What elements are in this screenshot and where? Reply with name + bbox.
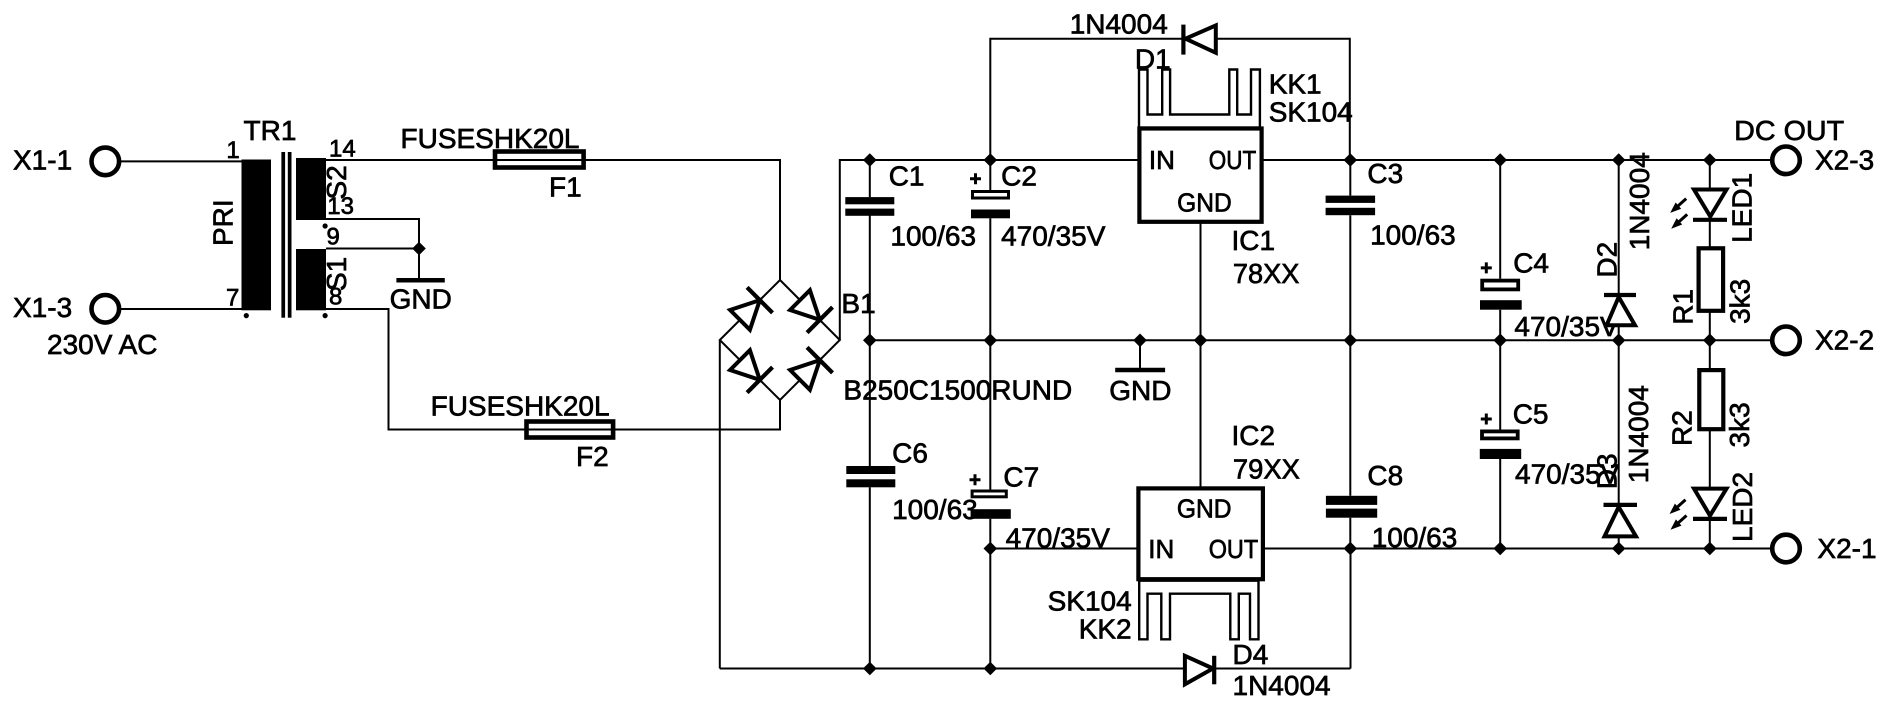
wire bottom rail riser to IC2 OUT <box>1350 549 1352 669</box>
svg-text:KK1: KK1 <box>1269 68 1322 99</box>
svg-text:C4: C4 <box>1513 247 1549 278</box>
diode D3 1N4004 <box>1592 385 1655 536</box>
svg-text:IC2: IC2 <box>1232 420 1276 451</box>
svg-text:D2: D2 <box>1592 242 1623 278</box>
svg-text:F1: F1 <box>549 172 582 203</box>
capacitor C3 <box>1326 158 1456 250</box>
terminal X2-3 <box>1772 144 1874 175</box>
svg-text:SK104: SK104 <box>1269 97 1353 128</box>
heatsink KK2 SK104 <box>1048 581 1259 645</box>
terminal X2-2 <box>1772 324 1874 355</box>
svg-text:3k3: 3k3 <box>1724 402 1755 447</box>
resistor R2 3k3 <box>1666 370 1755 447</box>
svg-text:C7: C7 <box>1003 461 1039 492</box>
svg-text:GND: GND <box>390 284 452 315</box>
bridge rectifier B1 <box>720 280 1072 405</box>
wire IC2 OUT line <box>1263 548 1770 550</box>
svg-text:X2-3: X2-3 <box>1815 144 1874 175</box>
LED1 <box>1670 173 1757 243</box>
svg-text:C5: C5 <box>1513 398 1549 429</box>
wire D2/D3 column <box>1618 160 1620 549</box>
wire C4/C5 column <box>1499 160 1501 549</box>
svg-text:GND: GND <box>1109 375 1171 406</box>
wire C1/C6 column <box>869 160 871 669</box>
capacitor C2 <box>970 161 1106 252</box>
svg-text:100/63: 100/63 <box>1372 522 1458 553</box>
svg-text:C6: C6 <box>892 438 928 469</box>
svg-text:X1-1: X1-1 <box>13 145 72 176</box>
svg-text:1: 1 <box>226 137 239 164</box>
svg-text:R2: R2 <box>1666 410 1697 446</box>
LED2 <box>1670 472 1758 542</box>
terminal X2-1 <box>1772 533 1876 564</box>
svg-text:14: 14 <box>329 136 356 163</box>
wire bridge plus riser <box>840 160 1140 340</box>
TR1 phase dot S2 <box>323 223 328 228</box>
ground symbol GND (mid rail) <box>1109 340 1171 406</box>
TR1 core <box>281 152 285 318</box>
svg-text:1N4004: 1N4004 <box>1624 152 1655 250</box>
svg-text:7: 7 <box>226 284 239 311</box>
svg-text:PRI: PRI <box>208 199 239 246</box>
wire TR1 pin 8 to bridge via F2 <box>326 309 780 430</box>
fuse F1 <box>401 123 584 203</box>
TR1 secondary winding S1 <box>296 249 326 310</box>
svg-text:OUT: OUT <box>1209 534 1259 564</box>
capacitor C1 <box>845 161 976 252</box>
capacitor C7 <box>970 461 1111 553</box>
junction dots bottom rail <box>863 662 997 676</box>
svg-text:D3: D3 <box>1592 453 1623 489</box>
svg-text:100/63: 100/63 <box>892 494 978 525</box>
diode D1 1N4004 <box>1070 9 1216 75</box>
regulator IC1 78XX <box>1139 129 1299 290</box>
svg-text:3k3: 3k3 <box>1724 279 1755 324</box>
capacitor C6 <box>846 438 977 526</box>
svg-text:OUT: OUT <box>1209 145 1257 175</box>
wire TR1 pin 14 to bridge via F1 <box>326 160 780 280</box>
wire IC2 IN line <box>990 548 1138 550</box>
svg-text:100/63: 100/63 <box>1370 220 1456 251</box>
svg-text:FUSESHK20L: FUSESHK20L <box>401 123 580 154</box>
junction dots lower OUT rail <box>984 542 1717 556</box>
diode D4 1N4004 <box>1185 639 1331 701</box>
wire C3/C8 column <box>1349 160 1351 549</box>
node center-tap junction <box>412 242 426 256</box>
wire TR1 pin 13 tap <box>326 219 419 249</box>
heatsink KK1 SK104 <box>1139 68 1353 127</box>
svg-text:LED1: LED1 <box>1726 173 1757 243</box>
TR1 primary winding <box>242 160 272 311</box>
junction dots mid rail <box>863 334 1717 348</box>
svg-text:GND: GND <box>1177 187 1232 217</box>
svg-text:GND: GND <box>1177 494 1232 524</box>
svg-text:B250C1500RUND: B250C1500RUND <box>843 374 1072 405</box>
diode D2 1N4004 <box>1592 152 1655 325</box>
svg-text:470/35V: 470/35V <box>1001 221 1106 252</box>
svg-text:X2-2: X2-2 <box>1815 324 1874 355</box>
wire D1 bypass loop <box>990 39 1350 160</box>
wire bottom rail <box>720 668 1351 670</box>
wire bridge minus to bottom rail <box>719 340 721 669</box>
svg-text:1N4004: 1N4004 <box>1070 9 1168 40</box>
junction dots top rail <box>863 153 1717 167</box>
wire top rail right of IC1 <box>1262 159 1771 161</box>
transformer TR1 <box>208 115 356 318</box>
svg-text:FUSESHK20L: FUSESHK20L <box>431 391 610 422</box>
fuse F2 <box>431 391 613 473</box>
svg-text:C3: C3 <box>1367 158 1403 189</box>
svg-text:DC OUT: DC OUT <box>1734 115 1844 146</box>
svg-text:SK104: SK104 <box>1048 585 1132 616</box>
svg-text:S1: S1 <box>321 257 352 291</box>
svg-text:1N4004: 1N4004 <box>1233 670 1331 701</box>
capacitor C4 <box>1480 247 1619 341</box>
svg-text:D4: D4 <box>1233 639 1269 670</box>
B1 diode top-right <box>787 287 832 332</box>
wire X1-1 to TR1 pin 1 <box>121 160 242 162</box>
svg-text:78XX: 78XX <box>1233 258 1300 289</box>
terminal X1-3 <box>13 292 119 323</box>
wire mid rail <box>870 339 1770 341</box>
resistor R1 3k3 <box>1668 248 1756 324</box>
B1 diode bottom-right <box>787 347 832 392</box>
svg-text:79XX: 79XX <box>1233 454 1300 485</box>
svg-text:C1: C1 <box>889 161 925 192</box>
svg-text:470/35V: 470/35V <box>1514 311 1619 342</box>
regulator IC2 79XX <box>1138 420 1300 579</box>
wire IC GND column <box>1200 222 1202 489</box>
svg-text:R1: R1 <box>1668 289 1699 325</box>
TR1 phase dot primary <box>244 313 249 318</box>
svg-text:X2-1: X2-1 <box>1817 533 1876 564</box>
terminal X1-1 <box>13 145 119 176</box>
svg-text:230V AC: 230V AC <box>47 329 158 360</box>
svg-text:C8: C8 <box>1367 460 1403 491</box>
svg-text:IC1: IC1 <box>1232 225 1276 256</box>
ground symbol GND (transformer) <box>390 249 452 315</box>
svg-text:F2: F2 <box>576 441 609 472</box>
wire X1-3 to TR1 pin 7 <box>121 308 242 310</box>
svg-text:IN: IN <box>1149 145 1175 175</box>
svg-text:KK2: KK2 <box>1079 614 1132 645</box>
svg-text:C2: C2 <box>1001 161 1037 192</box>
svg-text:X1-3: X1-3 <box>13 292 72 323</box>
B1 diode top-left <box>727 287 772 332</box>
TR1 secondary winding S2 <box>296 158 326 220</box>
wire TR1 pin 9 tap <box>326 248 419 250</box>
wire C2/C7 column <box>989 160 991 669</box>
svg-text:100/63: 100/63 <box>890 220 976 251</box>
capacitor C5 <box>1480 398 1620 489</box>
TR1 phase dot S1 <box>323 313 328 318</box>
svg-text:IN: IN <box>1148 534 1174 564</box>
svg-text:1N4004: 1N4004 <box>1623 385 1654 483</box>
svg-text:TR1: TR1 <box>244 115 297 146</box>
svg-text:LED2: LED2 <box>1727 472 1758 542</box>
wire LED/R column <box>1709 160 1711 549</box>
svg-text:9: 9 <box>327 223 340 250</box>
svg-text:S2: S2 <box>321 165 352 199</box>
B1 diode bottom-left <box>727 347 772 392</box>
capacitor C8 <box>1326 460 1457 553</box>
